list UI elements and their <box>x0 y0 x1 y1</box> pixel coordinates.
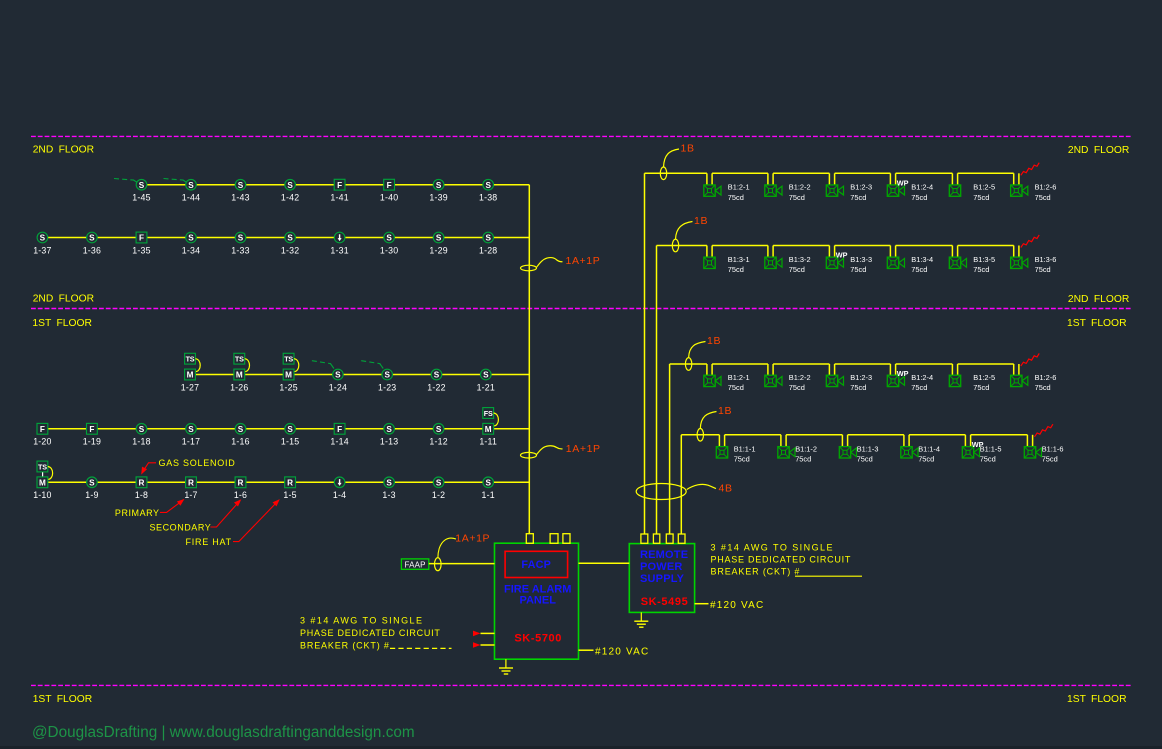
svg-text:REMOTE: REMOTE <box>640 549 688 561</box>
svg-text:1A+1P: 1A+1P <box>455 533 490 545</box>
smoke detector 1-13 <box>384 424 395 435</box>
svg-text:1-35: 1-35 <box>132 245 150 255</box>
svg-text:F: F <box>337 425 342 434</box>
label B1:1-2 75cd <box>795 444 817 463</box>
tamper switch TS for 1-27 <box>185 353 201 371</box>
wire FAAP to FACP <box>429 563 495 565</box>
label B1:1-1 75cd <box>734 444 756 463</box>
svg-text:B1:2-1: B1:2-1 <box>728 183 750 192</box>
svg-text:S: S <box>434 371 440 380</box>
horn/strobe B1:2-3 <box>826 185 843 196</box>
note 3 #14 AWG TO SINGLE PHASE DEDICATED CIRCUIT BREAKER (CKT) # <box>300 616 452 651</box>
label B1:2-4 75cd <box>911 373 933 392</box>
svg-text:FACP: FACP <box>521 559 551 571</box>
heat detector 1-14 <box>334 423 345 434</box>
svg-text:1-27: 1-27 <box>181 382 199 392</box>
RPS terminal 3 <box>666 534 673 543</box>
svg-text:S: S <box>238 234 244 243</box>
svg-text:75cd: 75cd <box>1035 383 1051 392</box>
svg-text:75cd: 75cd <box>973 383 989 392</box>
svg-text:75cd: 75cd <box>1035 193 1051 202</box>
svg-text:B1:2-2: B1:2-2 <box>789 373 811 382</box>
label B1:2-6 75cd <box>1035 373 1057 392</box>
FACP inner red rectangle <box>505 551 567 577</box>
svg-text:1-21: 1-21 <box>477 382 495 392</box>
svg-text:1-36: 1-36 <box>83 245 101 255</box>
circuit tag 1B (circuit B1:2 (1st floor)) <box>685 335 721 370</box>
EOL resistor circuit B1:3 (2nd floor) <box>1021 235 1039 248</box>
smoke detector 1-9 <box>87 477 98 488</box>
svg-text:1-17: 1-17 <box>182 437 200 447</box>
svg-text:1-12: 1-12 <box>429 437 447 447</box>
ground symbol FACP <box>499 659 513 674</box>
svg-text:B1:1-5: B1:1-5 <box>980 444 1002 453</box>
svg-text:75cd: 75cd <box>850 265 866 274</box>
svg-text:1-39: 1-39 <box>429 193 447 203</box>
ground symbol RPS <box>634 612 648 627</box>
smoke detector 1-43 <box>235 179 246 190</box>
label B1:3-4 75cd <box>911 255 933 274</box>
svg-text:1ST FLOOR: 1ST FLOOR <box>1067 694 1127 705</box>
EOL resistor circuit B1:2 (1st floor) <box>1021 353 1039 366</box>
svg-text:GAS SOLENOID: GAS SOLENOID <box>159 458 236 468</box>
svg-text:B1:2-3: B1:2-3 <box>850 373 872 382</box>
smoke detector 1-39 <box>433 179 444 190</box>
horn/strobe B1:2-3 <box>826 375 843 386</box>
svg-text:75cd: 75cd <box>728 265 744 274</box>
svg-text:S: S <box>386 425 392 434</box>
monitor module 1-25 <box>283 369 294 380</box>
label B1:3-5 75cd <box>973 255 995 274</box>
svg-text:TS: TS <box>284 355 293 364</box>
svg-text:75cd: 75cd <box>789 193 805 202</box>
horn/strobe B1:3-6 <box>1011 257 1028 268</box>
leader to relay 1-8 <box>143 463 156 472</box>
svg-text:F: F <box>337 181 342 190</box>
flow switch FS for 1-11 <box>483 408 499 426</box>
label B1:3-3 75cd <box>850 255 872 274</box>
horn/strobe B1:1-2 <box>778 447 795 458</box>
svg-text:1-40: 1-40 <box>380 193 398 203</box>
RPS terminal 2 <box>653 534 659 543</box>
heat/flow detector 1-40 <box>384 179 395 190</box>
svg-text:1ST FLOOR: 1ST FLOOR <box>33 694 93 705</box>
svg-text:1ST FLOOR: 1ST FLOOR <box>1067 318 1127 329</box>
svg-text:S: S <box>287 234 293 243</box>
svg-text:1-44: 1-44 <box>182 193 200 203</box>
svg-text:S: S <box>436 425 442 434</box>
smoke detector 1-2 <box>433 477 444 488</box>
svg-text:S: S <box>436 234 442 243</box>
circuit tag 1A+1P (2nd floor) <box>521 255 601 271</box>
smoke detector 1-45 <box>136 179 147 190</box>
svg-text:B1:2-2: B1:2-2 <box>789 183 811 192</box>
svg-text:B1:2-3: B1:2-3 <box>850 183 872 192</box>
smoke detector 1-17 <box>186 424 197 435</box>
wire NAC riser 1 <box>644 173 646 534</box>
wire FACP to RPS <box>579 562 630 564</box>
label B1:2-3 75cd <box>850 183 872 202</box>
svg-text:1-20: 1-20 <box>33 437 51 447</box>
wire RPS 120VAC <box>695 603 709 605</box>
svg-text:75cd: 75cd <box>728 383 744 392</box>
svg-text:SK-5700: SK-5700 <box>514 633 562 645</box>
RPS terminal 4 <box>678 534 685 543</box>
heat/flow detector 1-41 <box>334 179 345 190</box>
svg-text:S: S <box>485 234 491 243</box>
horn/strobe B1:2-6 <box>1011 185 1028 196</box>
tamper switch TS for 1-25 <box>283 353 299 371</box>
svg-text:75cd: 75cd <box>850 383 866 392</box>
svg-text:B1:2-6: B1:2-6 <box>1035 183 1057 192</box>
horn/strobe B1:3-2 <box>765 257 782 268</box>
svg-text:75cd: 75cd <box>973 193 989 202</box>
smoke detector 1-15 <box>285 424 296 435</box>
svg-text:B1:2-5: B1:2-5 <box>973 373 995 382</box>
relay module 1-6 <box>235 477 246 488</box>
svg-text:75cd: 75cd <box>789 265 805 274</box>
svg-text:BREAKER (CKT) #: BREAKER (CKT) # <box>300 641 390 651</box>
label B1:2-1 75cd <box>728 373 750 392</box>
monitor module 1-10 <box>37 477 48 488</box>
strobe B1:2-5 <box>949 185 960 196</box>
svg-text:FS: FS <box>484 409 493 418</box>
svg-text:75cd: 75cd <box>980 455 996 464</box>
wire SLC row 2 <box>42 237 529 239</box>
duct detector 1-4 <box>334 477 345 488</box>
2nd/1st floor separation line <box>31 308 1131 310</box>
wire SLC row 5 <box>42 481 529 483</box>
smoke detector 1-37 <box>37 232 48 243</box>
label B1:3-1 75cd <box>728 255 750 274</box>
monitor module 1-11 <box>483 423 494 434</box>
svg-text:FAAP: FAAP <box>404 560 425 569</box>
smoke detector 1-44 <box>186 179 197 190</box>
svg-text:1B: 1B <box>718 405 732 417</box>
svg-text:POWER: POWER <box>640 561 683 573</box>
svg-text:1-24: 1-24 <box>329 382 347 392</box>
svg-text:75cd: 75cd <box>734 455 750 464</box>
svg-text:SECONDARY: SECONDARY <box>150 522 212 532</box>
feed arrow 1 into FACP <box>473 631 495 637</box>
horn/strobe B1:1-3 <box>839 447 856 458</box>
circuit tag 4B <box>636 483 733 500</box>
svg-text:S: S <box>287 425 293 434</box>
wire SLC row 1 <box>142 184 530 186</box>
horn/strobe B1:2-6 <box>1011 375 1028 386</box>
svg-text:R: R <box>188 478 194 487</box>
svg-text:1-6: 1-6 <box>234 490 247 500</box>
svg-text:BREAKER (CKT) #: BREAKER (CKT) # <box>711 566 801 576</box>
svg-text:F: F <box>40 425 45 434</box>
svg-text:1-8: 1-8 <box>135 490 148 500</box>
svg-text:B1:3-1: B1:3-1 <box>728 255 750 264</box>
svg-text:S: S <box>89 234 95 243</box>
tamper switch TS for 1-10 <box>37 461 53 479</box>
circuit tag 1A+1P (1st floor) <box>521 443 601 458</box>
label B1:2-5 75cd <box>973 183 995 202</box>
svg-text:S: S <box>436 181 442 190</box>
smoke detector 1-16 <box>235 424 246 435</box>
svg-text:1-41: 1-41 <box>330 193 348 203</box>
svg-text:1-34: 1-34 <box>182 245 200 255</box>
FACP terminal 1 <box>526 534 533 544</box>
svg-text:B1:2-4: B1:2-4 <box>911 183 933 192</box>
svg-text:75cd: 75cd <box>728 193 744 202</box>
svg-text:75cd: 75cd <box>911 193 927 202</box>
svg-text:S: S <box>384 371 390 380</box>
svg-text:75cd: 75cd <box>850 193 866 202</box>
svg-text:R: R <box>287 478 293 487</box>
leader to relay 1-6 <box>211 501 240 527</box>
tamper switch TS for 1-26 <box>234 353 250 371</box>
FACP terminal 3 <box>563 534 570 544</box>
svg-text:M: M <box>236 371 243 380</box>
svg-text:1-4: 1-4 <box>333 490 346 500</box>
wire SLC row 4 <box>42 428 529 430</box>
label B1:1-6 75cd <box>1042 444 1064 463</box>
label B1:3-2 75cd <box>789 255 811 274</box>
1st floor line (bottom) <box>31 684 1131 686</box>
circuit tag 1B (circuit B1:2 (2nd floor)) <box>660 143 694 180</box>
heat detector 1-35 <box>136 232 147 243</box>
svg-text:1B: 1B <box>681 143 695 155</box>
RPS terminal 1 <box>641 534 648 543</box>
svg-text:1-42: 1-42 <box>281 193 299 203</box>
smoke detector 1-21 <box>481 369 492 380</box>
wire NAC riser 4 <box>680 435 682 534</box>
svg-text:PRIMARY: PRIMARY <box>115 508 160 518</box>
svg-text:@DouglasDrafting | www.douglas: @DouglasDrafting | www.douglasdraftingan… <box>32 724 415 741</box>
svg-text:1-33: 1-33 <box>231 245 249 255</box>
svg-text:B1:2-5: B1:2-5 <box>973 183 995 192</box>
svg-text:1-14: 1-14 <box>330 437 348 447</box>
svg-text:1-16: 1-16 <box>231 437 249 447</box>
svg-text:1-13: 1-13 <box>380 437 398 447</box>
svg-text:S: S <box>139 181 145 190</box>
2nd floor line (top) <box>31 135 1131 137</box>
relay module 1-7 <box>186 477 197 488</box>
horn/strobe B1:2-4 <box>887 375 904 386</box>
horn/strobe B1:1-6 <box>1024 447 1041 458</box>
horn/strobe B1:2-1 <box>704 375 721 386</box>
horn/strobe B1:2-2 <box>765 375 782 386</box>
svg-text:S: S <box>188 181 194 190</box>
horn/strobe B1:3-3 <box>826 257 843 268</box>
svg-text:75cd: 75cd <box>911 265 927 274</box>
svg-text:75cd: 75cd <box>911 383 927 392</box>
svg-text:S: S <box>188 425 194 434</box>
label B1:2-1 75cd <box>728 183 750 202</box>
smoke detector 1-38 <box>483 179 494 190</box>
svg-text:S: S <box>238 181 244 190</box>
smoke detector 1-34 <box>186 232 197 243</box>
svg-text:1-26: 1-26 <box>230 382 248 392</box>
svg-text:1-23: 1-23 <box>378 382 396 392</box>
svg-text:2ND FLOOR: 2ND FLOOR <box>33 294 94 305</box>
smoke detector 1-3 <box>384 477 395 488</box>
svg-text:1-43: 1-43 <box>231 193 249 203</box>
svg-text:1-1: 1-1 <box>482 490 495 500</box>
svg-text:S: S <box>485 181 491 190</box>
relay module 1-8 <box>136 477 147 488</box>
wire NAC circuit B1:2 (2nd floor) <box>645 173 1019 186</box>
wire NAC circuit B1:1 (1st floor) <box>681 435 1032 448</box>
svg-text:M: M <box>187 371 194 380</box>
svg-text:1-31: 1-31 <box>330 245 348 255</box>
svg-text:TS: TS <box>186 355 195 364</box>
FAAP annunciator box <box>401 559 428 569</box>
svg-text:75cd: 75cd <box>789 383 805 392</box>
wire SLC riser to FACP <box>528 185 530 534</box>
svg-text:75cd: 75cd <box>1035 265 1051 274</box>
svg-text:B1:3-2: B1:3-2 <box>789 255 811 264</box>
svg-text:1ST FLOOR: 1ST FLOOR <box>32 318 92 329</box>
monitor module 1-27 <box>185 369 196 380</box>
remote indicator dashed leader <box>114 179 137 183</box>
svg-text:1-19: 1-19 <box>83 437 101 447</box>
label B1:2-5 75cd <box>973 373 995 392</box>
EOL resistor circuit B1:1 (1st floor) <box>1035 424 1053 437</box>
svg-text:1-32: 1-32 <box>281 245 299 255</box>
feed arrow 2 into FACP <box>473 642 495 648</box>
svg-text:75cd: 75cd <box>795 455 811 464</box>
svg-text:M: M <box>39 478 46 487</box>
svg-text:1-5: 1-5 <box>283 490 296 500</box>
svg-text:S: S <box>485 478 491 487</box>
circuit tag 1B (circuit B1:3 (2nd floor)) <box>672 215 708 252</box>
wire NAC circuit B1:3 (2nd floor) <box>657 246 1019 259</box>
FACP terminal 2 <box>550 534 558 544</box>
svg-text:1-9: 1-9 <box>85 490 98 500</box>
svg-text:S: S <box>335 371 341 380</box>
svg-text:1-25: 1-25 <box>279 382 297 392</box>
note 3 #14 AWG TO SINGLE PHASE DEDICATED CIRCUIT BREAKER (CKT) # (RPS) <box>711 542 863 576</box>
svg-text:1-15: 1-15 <box>281 437 299 447</box>
svg-text:75cd: 75cd <box>857 455 873 464</box>
svg-text:PHASE DEDICATED CIRCUIT: PHASE DEDICATED CIRCUIT <box>300 628 441 638</box>
svg-text:1-2: 1-2 <box>432 490 445 500</box>
svg-text:B1:1-6: B1:1-6 <box>1042 444 1064 453</box>
svg-text:1-28: 1-28 <box>479 245 497 255</box>
svg-text:WP: WP <box>897 178 909 187</box>
label B1:3-6 75cd <box>1035 255 1057 274</box>
smoke detector 1-1 <box>483 477 494 488</box>
svg-text:S: S <box>40 234 46 243</box>
smoke detector 1-23 <box>382 369 393 380</box>
svg-text:2ND FLOOR: 2ND FLOOR <box>33 145 94 156</box>
horn/strobe B1:3-4 <box>887 257 904 268</box>
svg-text:2ND FLOOR: 2ND FLOOR <box>1068 294 1129 305</box>
svg-text:TS: TS <box>235 355 244 364</box>
wire NAC riser 2 <box>656 246 658 535</box>
svg-text:F: F <box>387 181 392 190</box>
strobe B1:3-1 <box>704 257 715 268</box>
horn/strobe B1:1-4 <box>901 447 918 458</box>
horn/strobe B1:2-2 <box>765 185 782 196</box>
wire NAC circuit B1:2 (1st floor) <box>670 364 1019 377</box>
svg-text:FIRE HAT: FIRE HAT <box>186 537 232 547</box>
svg-text:3 #14 AWG TO SINGLE: 3 #14 AWG TO SINGLE <box>711 542 834 552</box>
label B1:1-3 75cd <box>857 444 879 463</box>
svg-text:S: S <box>238 425 244 434</box>
RPS panel box <box>629 544 694 613</box>
label B1:1-4 75cd <box>918 444 940 463</box>
circuit tag 1A+1P (annunciator) <box>435 533 491 571</box>
remote indicator dashed leader <box>361 361 383 369</box>
smoke detector 1-36 <box>87 232 98 243</box>
label B1:2-2 75cd <box>789 183 811 202</box>
smoke detector 1-12 <box>433 424 444 435</box>
svg-text:B1:1-3: B1:1-3 <box>857 444 879 453</box>
smoke detector 1-32 <box>285 232 296 243</box>
label B1:1-5 75cd <box>980 444 1002 463</box>
svg-text:S: S <box>89 478 95 487</box>
svg-text:S: S <box>436 478 442 487</box>
svg-text:2ND FLOOR: 2ND FLOOR <box>1068 145 1129 156</box>
svg-text:B1:1-4: B1:1-4 <box>918 444 940 453</box>
label B1:2-4 75cd <box>911 183 933 202</box>
wire FACP 120VAC <box>579 649 594 651</box>
svg-text:1-10: 1-10 <box>33 490 51 500</box>
horn/strobe B1:2-4 <box>887 185 904 196</box>
svg-text:S: S <box>386 234 392 243</box>
svg-text:WP: WP <box>897 369 909 378</box>
label B1:2-3 75cd <box>850 373 872 392</box>
horn/strobe B1:1-5 <box>962 447 979 458</box>
label B1:2-6 75cd <box>1035 183 1057 202</box>
svg-text:B1:2-1: B1:2-1 <box>728 373 750 382</box>
svg-text:WP: WP <box>836 251 848 260</box>
monitor module 1-26 <box>234 369 245 380</box>
svg-text:75cd: 75cd <box>1042 455 1058 464</box>
svg-text:1-7: 1-7 <box>184 490 197 500</box>
svg-text:1A+1P: 1A+1P <box>566 255 601 267</box>
svg-text:S: S <box>287 181 293 190</box>
svg-text:1-3: 1-3 <box>382 490 395 500</box>
relay module 1-5 <box>285 477 296 488</box>
svg-text:B1:2-6: B1:2-6 <box>1035 373 1057 382</box>
svg-text:1-37: 1-37 <box>33 245 51 255</box>
heat detector 1-20 <box>37 423 48 434</box>
svg-text:S: S <box>188 234 194 243</box>
horn/strobe B1:2-1 <box>704 185 721 196</box>
svg-text:R: R <box>238 478 244 487</box>
svg-text:B1:3-5: B1:3-5 <box>973 255 995 264</box>
smoke detector 1-29 <box>433 232 444 243</box>
svg-text:SK-5495: SK-5495 <box>641 596 689 608</box>
svg-text:1-22: 1-22 <box>427 382 445 392</box>
svg-text:M: M <box>485 425 492 434</box>
svg-text:B1:3-6: B1:3-6 <box>1035 255 1057 264</box>
bottom edge strip <box>0 746 1162 749</box>
svg-text:75cd: 75cd <box>973 265 989 274</box>
duct detector 1-31 <box>334 232 345 243</box>
svg-text:F: F <box>139 234 144 243</box>
leader to relay 1-7 <box>160 501 183 513</box>
smoke detector 1-30 <box>384 232 395 243</box>
svg-text:PHASE DEDICATED CIRCUIT: PHASE DEDICATED CIRCUIT <box>711 554 852 564</box>
EOL resistor circuit B1:2 (2nd floor) <box>1021 163 1039 176</box>
svg-text:SUPPLY: SUPPLY <box>640 573 685 585</box>
svg-text:#120 VAC: #120 VAC <box>595 647 649 658</box>
smoke detector 1-18 <box>136 424 147 435</box>
label B1:2-2 75cd <box>789 373 811 392</box>
heat detector 1-19 <box>87 423 98 434</box>
svg-text:TS: TS <box>38 462 47 471</box>
svg-text:1-29: 1-29 <box>429 245 447 255</box>
strobe B1:1-1 <box>716 447 727 458</box>
